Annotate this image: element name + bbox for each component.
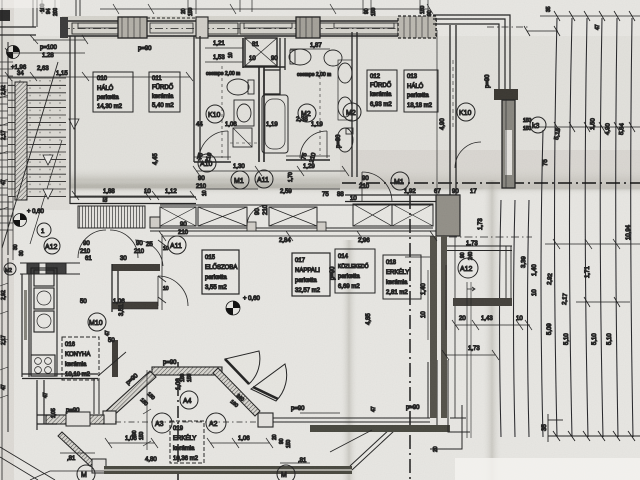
kitchen bottom wall (22, 352, 126, 379)
node A12 right (458, 258, 478, 278)
section line vertical x410 (409, 195, 411, 480)
down arrows (69, 119, 79, 129)
room label box 010 (93, 72, 133, 112)
corridor X-box row (150, 195, 460, 236)
node M bottom mid (277, 465, 295, 480)
kitchen right wall (112, 264, 160, 377)
room label box 011 (149, 72, 180, 112)
center door leaf 2 (251, 364, 287, 401)
room 010 left wall (70, 36, 75, 204)
corridor bottom wall under 013 (345, 195, 460, 202)
window module 2 (roller) (147, 18, 196, 36)
stair block (2, 62, 79, 248)
bidet 012 (324, 50, 342, 66)
node A10 (198, 154, 216, 172)
kitchen counter (31, 268, 57, 376)
nappali south parapet right part (273, 413, 450, 432)
tread tick marks (12, 80, 60, 196)
node A11 mid (255, 170, 273, 188)
double washbasin 012 (338, 60, 352, 120)
node M2b (343, 103, 361, 121)
left margin tick texts (0, 95, 8, 398)
terrace rotated dims (478, 117, 632, 431)
window module 5 (320, 23, 398, 34)
stair left flight strip (0, 62, 13, 230)
node M bottom left (77, 465, 95, 480)
pier 1 (118, 17, 147, 38)
pier 3 (296, 17, 320, 38)
central T wall and shaft (243, 38, 285, 162)
p=90 labels (66, 74, 491, 414)
room label box 019 (170, 421, 204, 463)
toilet 012 (289, 49, 311, 65)
room label box 012 (367, 70, 397, 111)
toilet2 012 (337, 128, 353, 152)
mark +0,60 entry (14, 214, 27, 227)
wall 010/bathroom 011 (194, 36, 231, 162)
top dimension rows (42, 0, 433, 14)
SW corner wall (37, 380, 57, 430)
bottom-center door pier (258, 413, 273, 427)
mark +1,96 (7, 46, 20, 59)
extra top ticks (188, 0, 428, 14)
node M2 bath2 (298, 104, 316, 122)
site boundary bottom left (0, 447, 55, 480)
node A4 (180, 391, 198, 409)
wall right of bathroom 012 (286, 32, 357, 177)
wardrobe hatched (78, 206, 145, 228)
balcony right diagonal up (350, 428, 394, 470)
node K10 bath1 (206, 105, 224, 123)
bay parapet left horizontal (46, 412, 104, 426)
node A12 (44, 238, 60, 254)
right bay diagonal parapet (213, 368, 260, 416)
bay side wall below kitchen (94, 379, 99, 414)
entry wall with piers (20, 263, 80, 274)
room 013 door arc (362, 172, 392, 202)
window module 1 (72, 23, 118, 34)
section line A-A dash-dot horizontal (342, 182, 640, 184)
top-right corner wall hook (433, 15, 530, 195)
section line vertical x178 (177, 362, 179, 480)
pier 2 (196, 17, 208, 38)
right mid dims (421, 241, 538, 352)
survey quadrant marks (7, 46, 241, 316)
stair wall hatched bar (15, 82, 27, 200)
wall segment top far-left (0, 0, 80, 35)
balcony 018 railing (447, 237, 532, 306)
toilet bathroom 011 (227, 79, 254, 95)
bathroom 011 door arc (199, 131, 228, 160)
node A11 low (168, 236, 186, 254)
node A3 (152, 413, 172, 433)
node k3 (530, 117, 546, 133)
bay parapet: kitchen-front horizontal (152, 367, 222, 375)
room label box 015 (202, 250, 239, 294)
elöszoba dim vertical (158, 234, 166, 310)
room label box 016 (62, 337, 99, 380)
nappali right wall (430, 236, 455, 418)
wall stub below kitchen door (112, 302, 158, 309)
left exterior edge double line (2, 0, 13, 480)
node 1 (37, 223, 51, 237)
kitchen area dims (85, 242, 169, 316)
room label box 018 (383, 255, 421, 299)
right wall of room 013 (450, 25, 456, 197)
node M1 left (231, 171, 249, 189)
room label box 013 (404, 70, 438, 112)
left end cap (60, 17, 68, 38)
balcony outer railing left diagonal (58, 432, 106, 473)
window module 3 (208, 23, 238, 34)
mid dims row y190 (72, 191, 197, 200)
node M1 right (391, 172, 409, 190)
node A2 (206, 413, 226, 433)
bathtub 012 (262, 95, 288, 153)
bottom wall of rooms 010/011 corridor top (70, 197, 196, 204)
SE corner nested lines (30, 360, 470, 480)
pier 4 (398, 16, 436, 38)
node K10 right (457, 103, 475, 121)
terrace door arc top right (455, 142, 481, 168)
elöszoba-nappali door arc (158, 276, 188, 306)
washbasin 011 (234, 100, 254, 126)
terrace bottom tick line (548, 414, 640, 442)
left top dims (5, 35, 193, 81)
rotated small labels bottom (43, 190, 439, 452)
nappali bottom dims (67, 299, 307, 464)
node M2 small (4, 263, 16, 275)
node M10 (88, 313, 106, 331)
room label box 017 (292, 253, 330, 296)
kitchen door arc (135, 240, 163, 266)
bathroom 012 door arc (300, 131, 327, 158)
bay parapet diagonal (kitchen to low) (103, 371, 156, 424)
center door leaf 1 (225, 351, 260, 384)
kitchen west wall (22, 274, 29, 377)
stair break diagonal (2, 62, 58, 248)
left margin tiny rotated texts (1, 85, 25, 390)
entry corridor door arcs (78, 230, 138, 258)
mark +0,60 nappali (226, 301, 240, 315)
top exterior wall band (60, 16, 437, 39)
balcony bottom railing band (104, 466, 352, 474)
terrace decking lines (500, 18, 634, 437)
dim ext vertical right (466, 282, 468, 438)
washing machine 011 (233, 128, 252, 147)
room label box 014 (335, 249, 375, 293)
shower cabin (245, 38, 277, 66)
terrace top dim line (524, 11, 640, 36)
terrace mid tick rows (405, 122, 640, 307)
marker circles (4, 103, 546, 480)
door labels 90/210 (80, 152, 549, 255)
window module 4 (240, 23, 296, 34)
